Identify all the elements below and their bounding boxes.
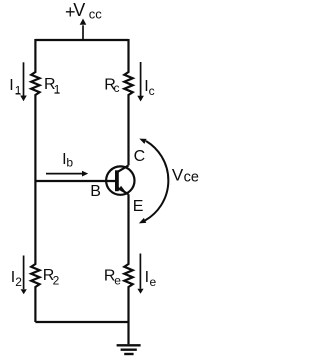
- svg-text:1: 1: [15, 83, 22, 97]
- svg-text:2: 2: [15, 275, 22, 289]
- svg-text:2: 2: [53, 273, 60, 287]
- svg-text:1: 1: [54, 83, 61, 97]
- svg-text:B: B: [90, 183, 101, 200]
- svg-text:I: I: [9, 77, 13, 94]
- svg-text:e: e: [114, 273, 121, 287]
- svg-text:ce: ce: [184, 170, 199, 186]
- svg-text:cc: cc: [89, 7, 103, 22]
- svg-text:c: c: [149, 84, 155, 98]
- svg-text:V: V: [73, 0, 85, 20]
- svg-text:b: b: [66, 156, 73, 170]
- svg-text:I: I: [145, 269, 149, 286]
- svg-text:V: V: [172, 165, 184, 184]
- svg-text:C: C: [134, 148, 146, 165]
- svg-text:e: e: [150, 275, 157, 289]
- svg-text:c: c: [114, 81, 120, 95]
- svg-text:E: E: [133, 198, 144, 215]
